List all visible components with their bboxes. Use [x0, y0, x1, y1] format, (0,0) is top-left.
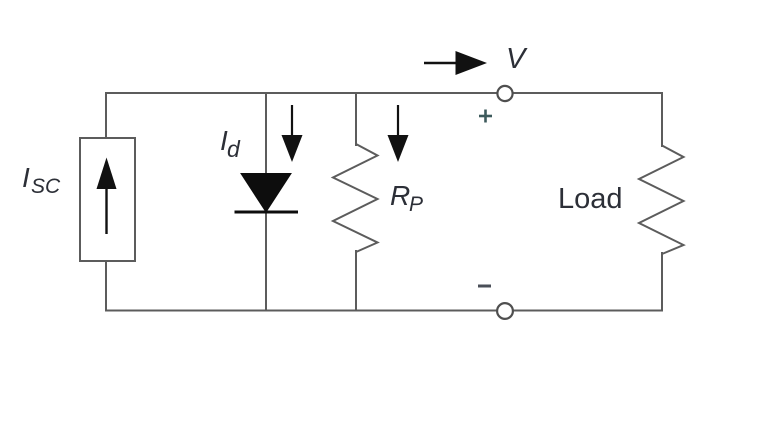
current source ISC: [80, 138, 135, 261]
plus polarity: [479, 110, 492, 123]
svg-text:R: R: [390, 180, 410, 211]
current arrow Id: [282, 105, 303, 162]
svg-text:V: V: [506, 43, 528, 75]
wire bottom rail: [106, 310, 662, 312]
wire Rp branch top: [355, 93, 357, 145]
wire diode branch: [265, 93, 267, 311]
svg-text:d: d: [227, 136, 241, 162]
label Id: [220, 125, 241, 162]
wire load branch top: [661, 93, 663, 146]
svg-text:Load: Load: [558, 183, 623, 215]
terminal node top: [497, 86, 512, 101]
resistor Load: [639, 146, 684, 255]
svg-text:P: P: [409, 193, 423, 216]
wire load branch bottom: [661, 253, 663, 311]
label ISC: [22, 162, 61, 198]
wire left bottom segment: [105, 261, 107, 311]
terminal node bottom: [497, 303, 513, 319]
resistor RP: [333, 144, 378, 252]
current arrow RP: [388, 105, 409, 162]
wire left top segment: [105, 93, 107, 138]
wire Rp branch bottom: [355, 251, 357, 311]
wire top rail: [106, 92, 662, 94]
label RP: [390, 180, 423, 216]
minus polarity: [478, 285, 491, 288]
diode D: [235, 174, 299, 213]
svg-text:SC: SC: [31, 175, 61, 198]
svg-text:I: I: [22, 162, 30, 193]
arrow V current direction: [424, 51, 487, 75]
